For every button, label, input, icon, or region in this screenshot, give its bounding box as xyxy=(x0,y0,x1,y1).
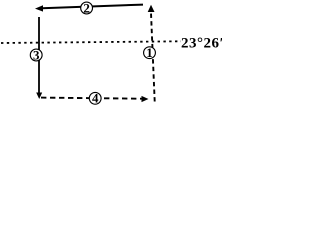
svg-text:4: 4 xyxy=(92,91,99,106)
wire: left vertical solid line xyxy=(38,17,40,94)
svg-text:1: 1 xyxy=(146,45,153,60)
wire: dotted latitude line 23°26' xyxy=(1,41,181,43)
svg-text:23°26′: 23°26′ xyxy=(181,35,222,51)
node 1: circled label on right line xyxy=(144,47,156,59)
wire: right vertical dashed line xyxy=(151,13,155,102)
arrowhead: left-pointing on top line xyxy=(35,5,43,11)
node 2: circled label on top line xyxy=(81,2,93,14)
node 3: circled label on left line xyxy=(30,49,42,61)
arrowhead: up-pointing on right line xyxy=(148,5,155,12)
node 4: circled label on bottom line xyxy=(89,92,101,104)
arrowhead: down-pointing on left line xyxy=(36,93,42,100)
arrowhead: right-pointing on bottom line xyxy=(142,96,149,102)
wire: bottom dashed line xyxy=(41,98,142,99)
wire: top solid line of loop xyxy=(42,5,143,9)
svg-text:3: 3 xyxy=(33,47,40,62)
svg-text:2: 2 xyxy=(83,0,90,15)
